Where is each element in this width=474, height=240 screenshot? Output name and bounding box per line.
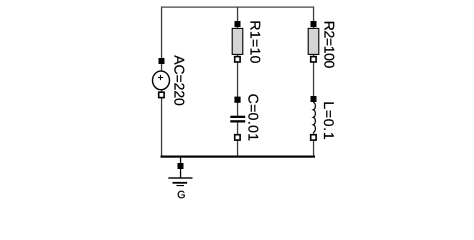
resistor R1 terminal top — [235, 21, 241, 27]
inductor L terminal top — [311, 96, 317, 102]
wire middle vertical lower — [237, 121, 238, 157]
resistor R2 terminal bottom (hollow) — [311, 57, 316, 62]
ground bar 2 — [173, 182, 188, 184]
wire bottom horizontal — [161, 156, 316, 158]
resistor R2 body — [308, 28, 319, 54]
wire right vertical lower — [313, 132, 314, 157]
wire top horizontal — [161, 7, 314, 8]
svg-text:R1=10: R1=10 — [248, 20, 264, 63]
ground bar 3 — [177, 185, 185, 186]
inductor L terminal bottom (hollow) — [311, 135, 316, 140]
capacitor C plate upper — [230, 116, 245, 118]
wire middle vertical upper — [237, 7, 238, 117]
resistor R1 body — [232, 28, 243, 54]
wire left vertical — [161, 7, 162, 157]
capacitor C terminal bottom (hollow) — [235, 135, 240, 140]
wire right vertical upper — [313, 7, 314, 103]
capacitor C terminal top — [234, 97, 240, 103]
inductor L coil — [313, 102, 315, 132]
svg-text:AC=220: AC=220 — [172, 55, 188, 106]
AC source V1 terminal bottom (hollow) — [159, 92, 164, 97]
svg-text:G: G — [177, 189, 185, 201]
svg-text:L=0.1: L=0.1 — [321, 101, 337, 140]
AC source V1 terminal top — [159, 58, 165, 64]
resistor R1 terminal bottom (hollow) — [235, 57, 240, 62]
ground bar 1 — [168, 177, 192, 178]
ground terminal square — [178, 163, 184, 169]
svg-text:R2=100: R2=100 — [322, 21, 338, 69]
AC source V1 circle — [153, 71, 170, 90]
capacitor C plate lower — [230, 120, 245, 122]
AC source V1 plus sign — [158, 75, 163, 80]
svg-text:C=0.01: C=0.01 — [246, 94, 262, 142]
resistor R2 terminal top — [311, 21, 317, 27]
ground stub wire — [180, 157, 181, 178]
